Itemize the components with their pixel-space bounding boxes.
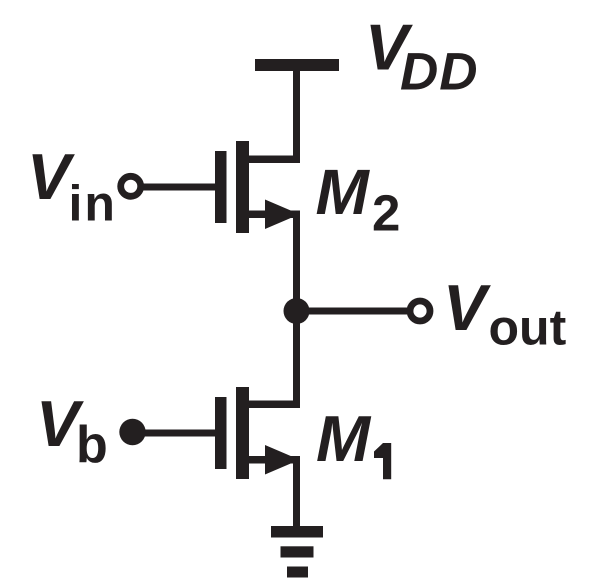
node output junction dot: [284, 298, 310, 324]
terminal Vin (open circle): [121, 176, 141, 196]
label Vb: [36, 387, 108, 474]
label VDD: [365, 11, 479, 102]
wire output node to Vout terminal: [296, 308, 407, 315]
VDD supply bar: [255, 59, 339, 71]
wire output node to M1 drain: [293, 311, 300, 408]
label M2: [316, 156, 401, 242]
svg-text:M: M: [316, 156, 371, 228]
label M1: [316, 402, 391, 479]
svg-text:V: V: [443, 271, 491, 344]
wire Vin terminal to M2 gate: [141, 184, 215, 191]
svg-text:M: M: [316, 402, 372, 475]
transistor M1: [215, 387, 300, 479]
svg-text:2: 2: [372, 185, 400, 242]
svg-text:b: b: [76, 416, 108, 474]
wire M2 source to output node: [293, 211, 300, 311]
wire Vb terminal to M1 gate: [132, 430, 215, 437]
terminal Vout (open circle): [410, 301, 430, 321]
label Vin: [27, 140, 117, 232]
transistor M2: [215, 141, 300, 233]
wire M1 source to ground: [293, 456, 300, 526]
svg-text:in: in: [69, 176, 117, 232]
ground: [271, 526, 323, 578]
terminal Vb (filled dot): [119, 419, 145, 445]
svg-text:DD: DD: [400, 43, 479, 102]
label Vout: [443, 271, 567, 356]
svg-text:out: out: [489, 300, 567, 356]
wire VDD to M2 drain: [293, 71, 300, 163]
